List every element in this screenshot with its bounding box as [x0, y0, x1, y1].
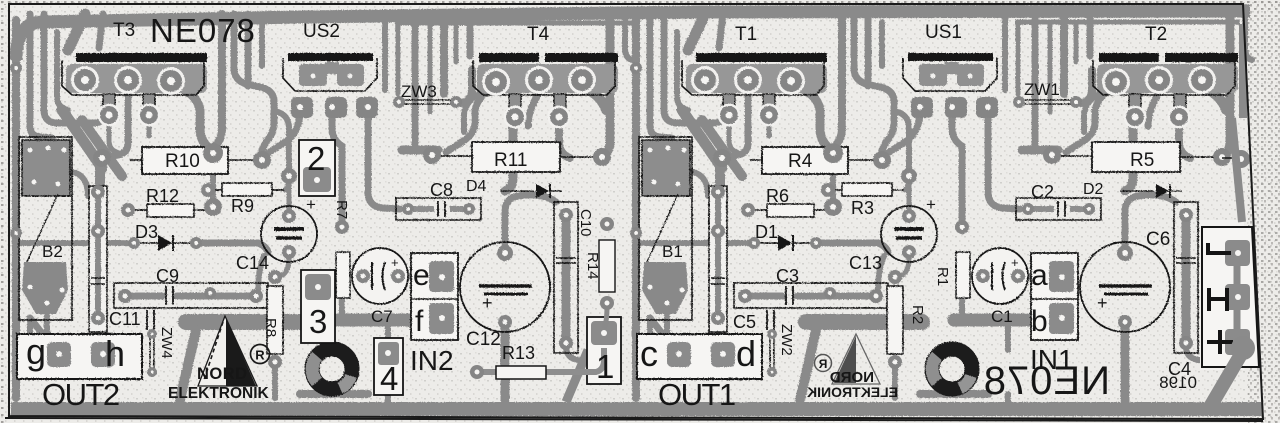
svg-text:R: R — [818, 357, 827, 371]
svg-text:ZW3: ZW3 — [401, 82, 437, 101]
svg-text:h: h — [105, 333, 125, 374]
svg-text:C10: C10 — [577, 209, 594, 237]
svg-text:1: 1 — [596, 348, 614, 385]
svg-text:NORD: NORD — [197, 365, 248, 383]
svg-text:C6: C6 — [1146, 229, 1170, 250]
svg-text:C2: C2 — [1031, 182, 1054, 202]
svg-text:4: 4 — [380, 360, 398, 397]
svg-text:R11: R11 — [494, 150, 527, 171]
svg-text:C12: C12 — [466, 329, 501, 350]
svg-text:C7: C7 — [371, 307, 393, 326]
svg-text:R9: R9 — [231, 196, 254, 216]
svg-text:T2: T2 — [1145, 24, 1167, 45]
svg-text:C11: C11 — [109, 309, 141, 329]
svg-text:B1: B1 — [662, 242, 683, 261]
svg-text:f: f — [415, 305, 424, 338]
svg-text:OUT1: OUT1 — [658, 377, 735, 412]
svg-text:US1: US1 — [925, 22, 962, 43]
svg-text:e: e — [413, 259, 430, 292]
svg-text:ZW2: ZW2 — [778, 324, 795, 356]
svg-text:C1: C1 — [991, 307, 1013, 326]
svg-text:IN2: IN2 — [410, 345, 454, 376]
svg-text:R6: R6 — [766, 186, 789, 206]
svg-text:B2: B2 — [42, 242, 63, 261]
svg-text:ZW4: ZW4 — [158, 327, 175, 359]
svg-text:R12: R12 — [146, 186, 179, 206]
svg-text:R7: R7 — [333, 200, 350, 219]
svg-text:D1: D1 — [755, 222, 778, 242]
svg-text:+: + — [306, 195, 316, 214]
svg-text:T3: T3 — [113, 20, 135, 41]
svg-text:D3: D3 — [135, 222, 158, 242]
svg-text:R4: R4 — [788, 151, 813, 172]
svg-text:C8: C8 — [430, 180, 453, 200]
svg-text:2: 2 — [307, 140, 325, 177]
svg-text:+: + — [1097, 293, 1108, 313]
svg-text:C5: C5 — [733, 312, 756, 332]
svg-text:T1: T1 — [735, 24, 757, 45]
svg-text:R1: R1 — [934, 267, 951, 286]
svg-text:+: + — [926, 195, 936, 214]
svg-text:T4: T4 — [527, 24, 550, 45]
svg-text:US2: US2 — [303, 21, 340, 42]
svg-text:d: d — [736, 333, 756, 374]
svg-text:IN1: IN1 — [1030, 344, 1074, 375]
svg-text:+: + — [482, 293, 493, 313]
svg-text:OUT2: OUT2 — [42, 377, 119, 412]
svg-text:R5: R5 — [1130, 150, 1154, 171]
svg-text:R: R — [255, 348, 265, 363]
svg-text:C13: C13 — [849, 253, 882, 273]
svg-text:R10: R10 — [165, 151, 200, 172]
svg-text:b: b — [1031, 305, 1048, 338]
svg-text:R2: R2 — [909, 305, 926, 324]
svg-text:+: + — [1011, 255, 1019, 270]
svg-text:+: + — [391, 255, 399, 270]
svg-text:R3: R3 — [851, 198, 874, 218]
svg-text:g: g — [26, 331, 46, 372]
svg-text:ELEKTRONIK: ELEKTRONIK — [807, 384, 898, 400]
svg-text:C14: C14 — [236, 253, 269, 273]
svg-text:R8: R8 — [262, 318, 279, 337]
svg-text:C3: C3 — [776, 266, 799, 286]
svg-text:3: 3 — [309, 303, 327, 340]
svg-text:c: c — [640, 333, 658, 374]
svg-text:D2: D2 — [1083, 181, 1104, 198]
svg-text:R13: R13 — [502, 343, 535, 363]
svg-text:a: a — [1031, 259, 1048, 292]
svg-text:ELEKTRONIK: ELEKTRONIK — [168, 385, 270, 402]
svg-text:NE078: NE078 — [150, 12, 256, 49]
svg-text:D4: D4 — [466, 178, 487, 195]
svg-text:ZW1: ZW1 — [1024, 80, 1060, 99]
svg-text:R14: R14 — [584, 252, 601, 280]
svg-text:C9: C9 — [156, 266, 179, 286]
svg-text:C4: C4 — [1168, 359, 1191, 379]
